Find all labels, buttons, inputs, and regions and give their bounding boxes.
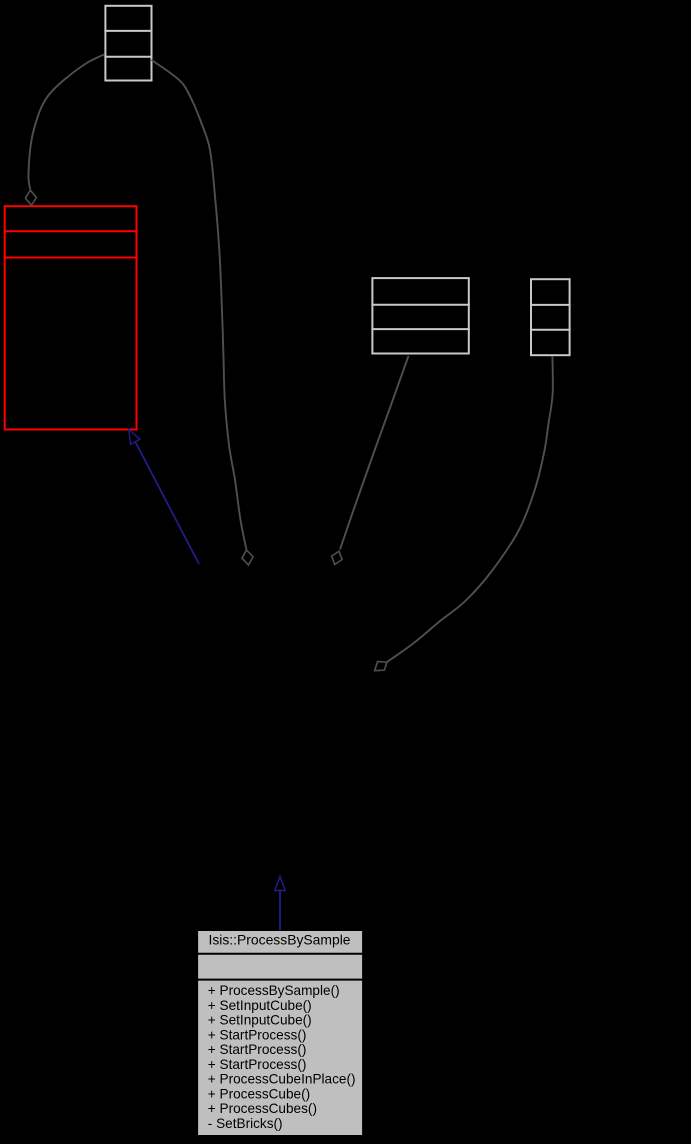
svg-text:+ SetInputCube(): + SetInputCube() bbox=[208, 1013, 312, 1028]
class node: Isis::ProcessBySample bbox=[198, 931, 363, 1136]
svg-text:+ ProcessBySample(): + ProcessBySample() bbox=[208, 983, 340, 998]
inheritance edge: hidden node to red box (blue) bbox=[135, 442, 199, 564]
svg-text:+ StartProcess(): + StartProcess() bbox=[208, 1027, 307, 1042]
inheritance edge: Isis::ProcessBySample to hidden base (blue) bbox=[279, 891, 281, 931]
aggregation edge: top box to red box bbox=[28, 55, 104, 190]
svg-text:+ StartProcess(): + StartProcess() bbox=[208, 1042, 307, 1057]
svg-text:+ StartProcess(): + StartProcess() bbox=[208, 1057, 307, 1072]
open diamond arrowhead (hidden node, left) bbox=[242, 550, 253, 565]
open diamond arrowhead on red box bbox=[25, 190, 36, 205]
hollow triangle arrowhead pointing up bbox=[275, 877, 286, 891]
class node: red box (3 compartments) bbox=[4, 206, 138, 429]
open diamond arrowhead (hidden node, right) bbox=[332, 551, 343, 564]
hollow triangle arrowhead at red box corner bbox=[129, 429, 140, 444]
svg-text:+ SetInputCube(): + SetInputCube() bbox=[208, 998, 312, 1013]
class node: top unlabeled box (3 compartments) bbox=[104, 6, 152, 81]
svg-text:+ ProcessCube(): + ProcessCube() bbox=[208, 1086, 310, 1101]
open diamond arrowhead (hidden node, lower) bbox=[375, 662, 387, 671]
aggregation edge: right box curving down to hidden node bbox=[387, 356, 553, 662]
svg-text:+ ProcessCubes(): + ProcessCubes() bbox=[208, 1101, 317, 1116]
svg-text:Isis::ProcessBySample: Isis::ProcessBySample bbox=[208, 932, 350, 948]
svg-text:- SetBricks(): - SetBricks() bbox=[208, 1116, 283, 1131]
svg-text:+ ProcessCubeInPlace(): + ProcessCubeInPlace() bbox=[208, 1072, 356, 1087]
aggregation edge: middle box down to hidden node bbox=[340, 356, 409, 550]
aggregation edge: top box curving down to hidden node bbox=[152, 60, 247, 550]
class node: right unlabeled box (3 compartments) bbox=[530, 279, 571, 355]
class node: middle unlabeled box (3 compartments) bbox=[371, 278, 469, 353]
